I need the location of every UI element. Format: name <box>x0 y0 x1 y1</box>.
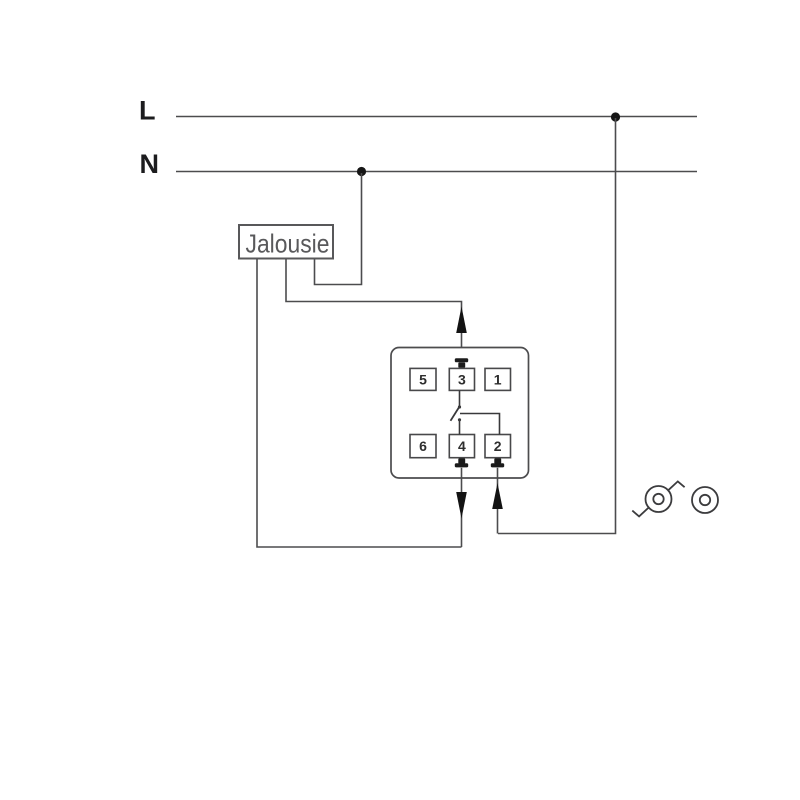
motor M1 inner circle <box>653 494 663 504</box>
svg-text:Jalousie: Jalousie <box>246 229 330 259</box>
wire from L junction down right side to terminal 2 branch <box>498 118 616 534</box>
svg-text:6: 6 <box>419 438 427 454</box>
arrow up into terminal 3 <box>456 307 467 334</box>
wire from terminal 4 down to bottom rail <box>461 468 463 547</box>
switch blade pivot dot <box>458 405 461 408</box>
Jalousie box <box>239 225 333 259</box>
motor M1 lower crank <box>632 508 648 517</box>
arrow up into terminal 2 <box>492 483 503 509</box>
internal stub from terminal 3 <box>459 390 461 407</box>
motor M2 inner circle <box>700 495 710 505</box>
wire L line <box>176 116 697 118</box>
svg-text:3: 3 <box>458 372 466 388</box>
wire Jalousie middle pin to switch terminal 3 <box>286 259 462 358</box>
svg-text:4: 4 <box>458 438 466 454</box>
motor M1 outer circle <box>646 486 672 512</box>
svg-text:5: 5 <box>419 372 427 388</box>
svg-text:2: 2 <box>494 438 502 454</box>
motor M2 outer circle <box>692 487 718 513</box>
arrow down out of terminal 4 <box>456 492 467 519</box>
terminal 4 <box>449 435 474 458</box>
svg-text:1: 1 <box>494 372 502 388</box>
terminal 6 <box>410 435 436 458</box>
svg-text:N: N <box>140 149 160 179</box>
wire Jalousie left pin to bottom rail <box>257 259 462 547</box>
terminal 3 <box>449 368 474 390</box>
switch unit body <box>391 348 529 479</box>
junction node on L line <box>611 112 620 121</box>
wire from N junction to Jalousie right pin <box>315 173 362 285</box>
internal stub contact dot <box>458 418 461 421</box>
screw clamp below terminal 2 <box>491 458 504 467</box>
switch blade contact <box>451 407 460 421</box>
svg-text:L: L <box>139 96 156 126</box>
screw clamp below terminal 4 <box>455 458 468 467</box>
terminal 1 <box>485 368 511 390</box>
wire N line <box>176 171 697 173</box>
internal wire to terminal 2 <box>460 414 500 435</box>
terminal 2 <box>485 435 511 458</box>
screw clamp above terminal 3 <box>455 358 468 368</box>
motor M1 upper crank <box>668 481 684 490</box>
wire from terminal 2 down to right branch <box>497 468 499 534</box>
internal stub to terminal 4 <box>459 420 461 435</box>
terminal 5 <box>410 368 436 390</box>
junction node on N line <box>357 167 366 176</box>
